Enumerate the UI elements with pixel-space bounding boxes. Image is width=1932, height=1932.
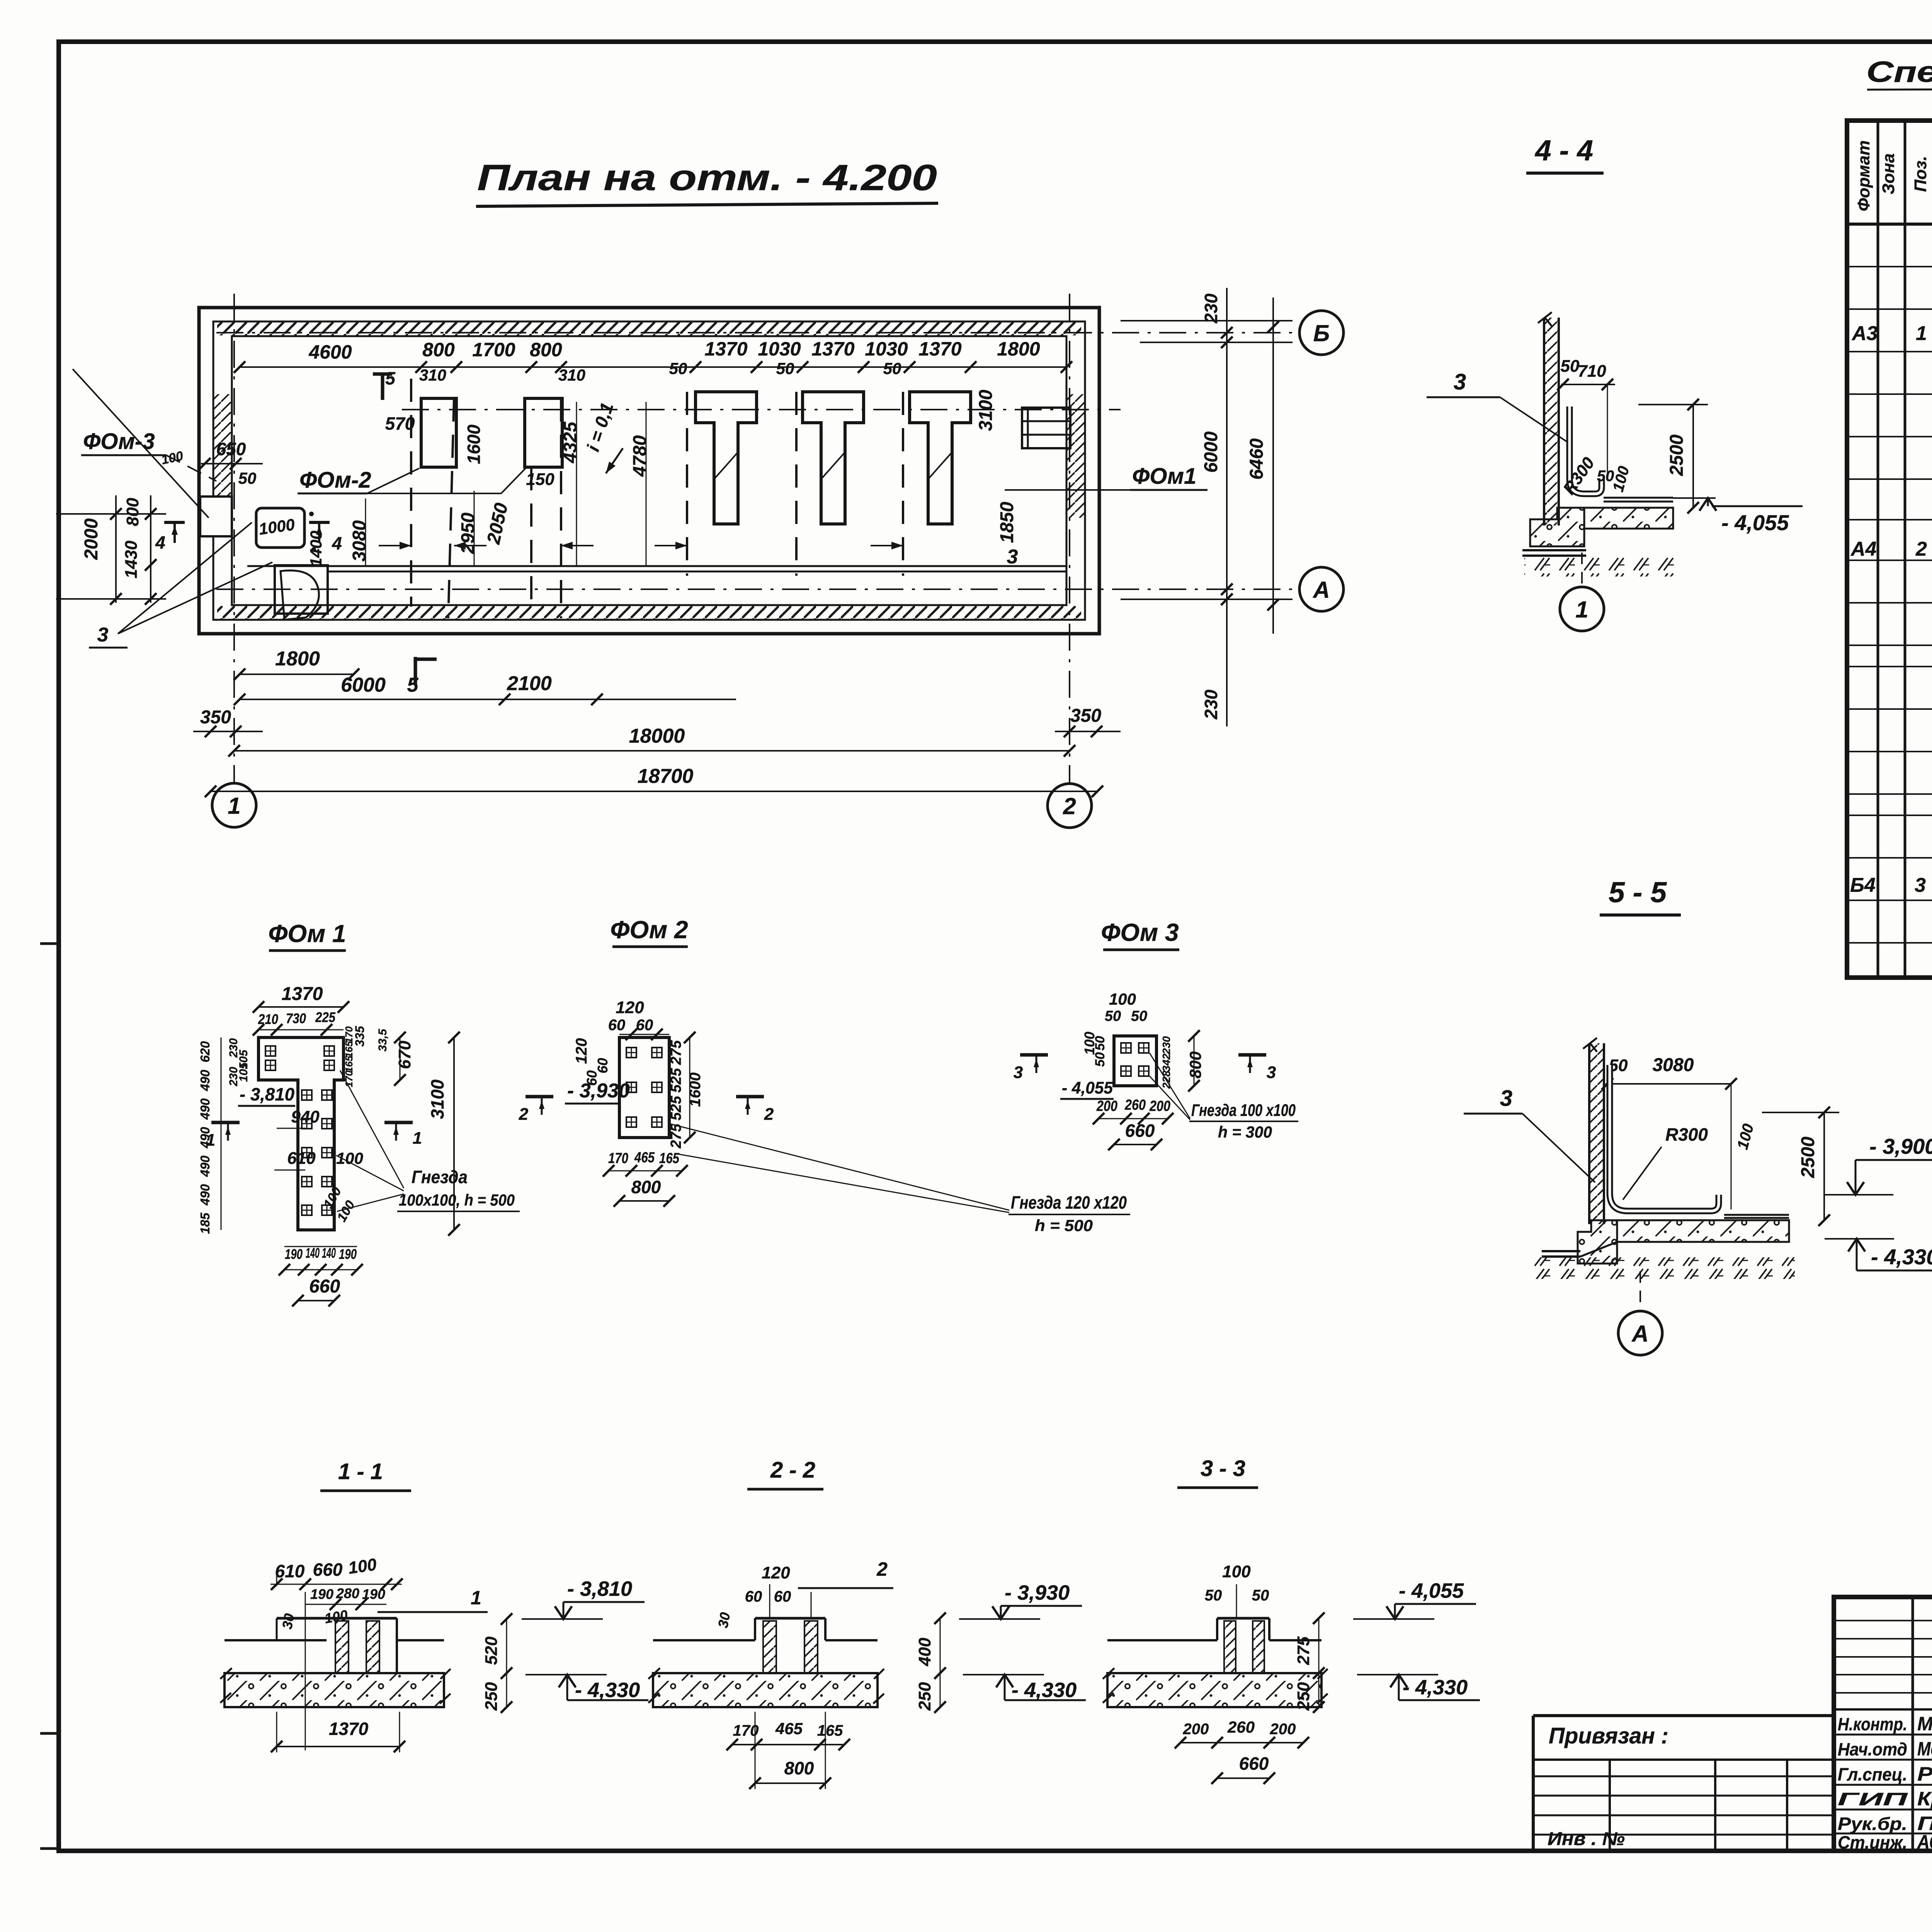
svg-text:3080: 3080 — [1653, 1055, 1694, 1075]
svg-text:1: 1 — [1916, 322, 1927, 345]
svg-text:3: 3 — [1014, 1063, 1023, 1082]
svg-text:50: 50 — [883, 359, 901, 378]
svg-text:- 4,330: - 4,330 — [575, 1679, 640, 1702]
svg-text:800: 800 — [422, 339, 455, 361]
svg-text:- 3,900: - 3,900 — [1869, 1134, 1932, 1158]
svg-text:50: 50 — [1252, 1587, 1269, 1604]
svg-text:260: 260 — [1124, 1097, 1146, 1113]
svg-text:350: 350 — [1070, 706, 1101, 726]
svg-text:465: 465 — [775, 1719, 803, 1738]
svg-text:1700: 1700 — [472, 339, 515, 361]
svg-text:120: 120 — [573, 1038, 590, 1064]
svg-text:ФОм-3: ФОм-3 — [83, 429, 155, 454]
svg-text:30: 30 — [279, 1612, 297, 1631]
svg-text:185: 185 — [198, 1213, 212, 1234]
svg-text:3100: 3100 — [427, 1079, 447, 1119]
svg-text:- 3,930: - 3,930 — [567, 1080, 630, 1102]
svg-text:4: 4 — [332, 533, 342, 553]
svg-text:60: 60 — [636, 1017, 653, 1034]
svg-text:Н.контр.: Н.контр. — [1838, 1714, 1907, 1734]
svg-text:210: 210 — [258, 1011, 278, 1027]
svg-text:18000: 18000 — [629, 725, 685, 747]
svg-text:А3: А3 — [1851, 322, 1878, 345]
svg-text:230: 230 — [1201, 293, 1221, 323]
svg-text:3: 3 — [1267, 1063, 1276, 1082]
svg-text:940: 940 — [291, 1107, 320, 1126]
svg-text:1: 1 — [471, 1587, 481, 1609]
svg-text:Гнезда 100 х100: Гнезда 100 х100 — [1191, 1101, 1296, 1120]
svg-text:250: 250 — [482, 1682, 501, 1711]
svg-text:170: 170 — [343, 1026, 355, 1043]
svg-text:660: 660 — [1239, 1753, 1269, 1774]
svg-text:170: 170 — [608, 1150, 628, 1167]
svg-text:4325: 4325 — [560, 421, 581, 463]
svg-text:ФОм 2: ФОм 2 — [610, 916, 688, 944]
svg-text:h = 500: h = 500 — [1035, 1216, 1093, 1235]
svg-text:1400: 1400 — [307, 531, 325, 566]
svg-text:Крюков: Крюков — [1917, 1788, 1932, 1810]
svg-text:650: 650 — [216, 439, 246, 459]
svg-text:165: 165 — [659, 1150, 680, 1167]
svg-text:6000: 6000 — [341, 674, 386, 696]
svg-text:3: 3 — [97, 624, 109, 646]
svg-text:100: 100 — [336, 1149, 363, 1167]
svg-text:50: 50 — [669, 359, 687, 378]
svg-text:140: 140 — [306, 1245, 320, 1261]
svg-text:230: 230 — [1201, 689, 1221, 719]
svg-text:1370: 1370 — [329, 1719, 369, 1739]
svg-text:Мильцер: Мильцер — [1917, 1713, 1932, 1735]
svg-text:Б: Б — [1313, 320, 1330, 346]
svg-text:ФОм-2: ФОм-2 — [299, 468, 371, 493]
svg-text:1 - 1: 1 - 1 — [338, 1459, 383, 1484]
svg-text:Зона: Зона — [1879, 153, 1898, 194]
svg-text:3 - 3: 3 - 3 — [1201, 1456, 1245, 1481]
svg-text:Б4: Б4 — [1850, 874, 1876, 896]
svg-text:2: 2 — [1063, 793, 1076, 819]
svg-text:2: 2 — [764, 1105, 774, 1124]
svg-text:1370: 1370 — [282, 984, 323, 1004]
svg-text:Привязан :: Привязан : — [1549, 1723, 1668, 1748]
svg-text:730: 730 — [286, 1010, 306, 1026]
svg-text:2: 2 — [1915, 538, 1927, 560]
svg-text:800: 800 — [123, 498, 142, 526]
svg-text:Абдулина: Абдулина — [1917, 1831, 1932, 1853]
svg-text:200: 200 — [1149, 1098, 1170, 1114]
svg-text:50: 50 — [1093, 1052, 1107, 1067]
svg-text:- 3,810: - 3,810 — [240, 1084, 294, 1104]
svg-text:Ст.инж.: Ст.инж. — [1838, 1832, 1907, 1852]
svg-text:Рук.бр.: Рук.бр. — [1838, 1814, 1907, 1834]
svg-text:120: 120 — [616, 998, 644, 1017]
svg-text:3: 3 — [1454, 369, 1466, 395]
svg-text:- 3,810: - 3,810 — [567, 1577, 632, 1600]
svg-text:18700: 18700 — [638, 765, 694, 787]
svg-text:200: 200 — [1096, 1098, 1117, 1114]
svg-text:310: 310 — [419, 366, 446, 384]
svg-text:150: 150 — [526, 470, 554, 489]
svg-text:800: 800 — [1186, 1051, 1204, 1078]
svg-text:- 4,330: - 4,330 — [1012, 1679, 1077, 1702]
svg-text:342: 342 — [1160, 1053, 1172, 1071]
svg-text:1370: 1370 — [811, 338, 854, 360]
svg-text:- 4,055: - 4,055 — [1721, 510, 1789, 535]
svg-text:3: 3 — [1500, 1086, 1512, 1111]
svg-text:800: 800 — [631, 1177, 661, 1197]
svg-text:190: 190 — [310, 1586, 333, 1602]
svg-text:165: 165 — [343, 1041, 355, 1058]
svg-text:50: 50 — [1093, 1036, 1107, 1051]
svg-text:4780: 4780 — [630, 435, 650, 477]
svg-text:525: 525 — [668, 1095, 684, 1120]
svg-text:335: 335 — [353, 1026, 367, 1047]
svg-text:2100: 2100 — [507, 672, 552, 695]
svg-text:Инв . №: Инв . № — [1548, 1829, 1625, 1849]
svg-text:200: 200 — [1183, 1721, 1209, 1738]
svg-text:R300: R300 — [1665, 1124, 1708, 1145]
svg-text:План на отм. - 4.200: План на отм. - 4.200 — [477, 157, 937, 198]
svg-text:100: 100 — [1222, 1562, 1251, 1581]
svg-text:660: 660 — [309, 1276, 340, 1297]
svg-text:4 - 4: 4 - 4 — [1534, 134, 1593, 167]
svg-text:50: 50 — [1105, 1008, 1121, 1024]
svg-text:310: 310 — [558, 366, 585, 384]
svg-text:Гнезда: Гнезда — [412, 1167, 468, 1187]
svg-text:ФОм 1: ФОм 1 — [268, 920, 346, 947]
svg-text:3: 3 — [1915, 874, 1926, 896]
svg-text:230: 230 — [227, 1067, 240, 1087]
svg-text:ФОм 3: ФОм 3 — [1101, 918, 1179, 946]
svg-text:400: 400 — [915, 1638, 934, 1667]
svg-text:Нач.отд: Нач.отд — [1838, 1739, 1907, 1759]
svg-text:120: 120 — [762, 1563, 790, 1582]
svg-text:1370: 1370 — [704, 338, 747, 360]
svg-text:2500: 2500 — [1798, 1136, 1818, 1178]
svg-text:200: 200 — [1270, 1721, 1296, 1738]
svg-text:Формат: Формат — [1854, 140, 1873, 211]
svg-text:660: 660 — [313, 1560, 343, 1580]
svg-text:33,5: 33,5 — [376, 1028, 389, 1051]
svg-text:250: 250 — [915, 1682, 934, 1711]
svg-text:Поз.: Поз. — [1911, 156, 1930, 192]
svg-text:1: 1 — [206, 1131, 215, 1150]
svg-text:Спецификация к схемам р: Спецификация к схемам расположения — [1866, 56, 1932, 88]
svg-text:490: 490 — [198, 1155, 212, 1177]
svg-text:- 4,330: - 4,330 — [1871, 1245, 1932, 1269]
svg-text:350: 350 — [200, 707, 231, 728]
svg-text:3080: 3080 — [349, 520, 370, 561]
svg-text:190: 190 — [339, 1246, 357, 1262]
svg-text:Мешалкин: Мешалкин — [1917, 1738, 1932, 1760]
svg-text:165: 165 — [817, 1722, 843, 1739]
svg-text:h = 300: h = 300 — [1218, 1123, 1272, 1141]
svg-text:60: 60 — [745, 1588, 762, 1605]
svg-text:1030: 1030 — [865, 338, 908, 360]
svg-text:ГИП: ГИП — [1838, 1789, 1908, 1809]
svg-text:50: 50 — [1561, 357, 1580, 376]
svg-text:1430: 1430 — [122, 541, 141, 578]
svg-text:465: 465 — [634, 1150, 655, 1166]
svg-text:1800: 1800 — [275, 648, 320, 670]
svg-text:1: 1 — [1575, 597, 1588, 622]
svg-text:490: 490 — [198, 1070, 212, 1092]
svg-text:50: 50 — [776, 359, 794, 378]
svg-text:4: 4 — [155, 532, 165, 553]
svg-text:100х100, h = 500: 100х100, h = 500 — [399, 1191, 515, 1209]
svg-text:А: А — [1312, 577, 1330, 603]
svg-text:5 - 5: 5 - 5 — [1609, 876, 1667, 908]
svg-text:2950: 2950 — [458, 512, 478, 554]
svg-text:610: 610 — [287, 1149, 316, 1168]
svg-text:- 4,055: - 4,055 — [1062, 1078, 1113, 1097]
svg-text:670: 670 — [395, 1041, 414, 1069]
svg-text:490: 490 — [198, 1184, 212, 1206]
svg-text:Руссин: Руссин — [1917, 1763, 1932, 1785]
svg-text:1030: 1030 — [758, 338, 801, 360]
svg-text:А: А — [1631, 1321, 1648, 1347]
svg-text:1600: 1600 — [464, 424, 484, 464]
svg-text:- 4,055: - 4,055 — [1399, 1579, 1464, 1602]
svg-text:710: 710 — [1578, 362, 1606, 381]
svg-text:5: 5 — [385, 368, 396, 388]
svg-text:2: 2 — [519, 1105, 529, 1124]
svg-text:4600: 4600 — [308, 341, 352, 363]
svg-text:800: 800 — [784, 1758, 814, 1778]
svg-text:- 3,930: - 3,930 — [1005, 1581, 1070, 1604]
svg-text:225: 225 — [315, 1009, 336, 1025]
svg-text:800: 800 — [530, 339, 562, 361]
svg-text:ФОм1: ФОм1 — [1132, 464, 1196, 489]
svg-text:250: 250 — [1294, 1682, 1313, 1711]
svg-text:60: 60 — [608, 1017, 626, 1034]
svg-text:6000: 6000 — [1201, 431, 1221, 473]
svg-text:3100: 3100 — [976, 389, 996, 431]
svg-text:490: 490 — [198, 1098, 212, 1120]
svg-text:620: 620 — [198, 1041, 212, 1063]
svg-text:660: 660 — [1125, 1121, 1155, 1141]
svg-text:50: 50 — [1205, 1587, 1222, 1604]
svg-text:2: 2 — [876, 1558, 888, 1580]
svg-text:570: 570 — [385, 413, 415, 434]
svg-text:Гл.спец.: Гл.спец. — [1838, 1764, 1907, 1784]
svg-text:60: 60 — [774, 1588, 791, 1605]
svg-text:140: 140 — [322, 1245, 336, 1261]
svg-text:2500: 2500 — [1667, 434, 1687, 476]
svg-text:2 - 2: 2 - 2 — [770, 1458, 815, 1483]
svg-text:50: 50 — [238, 469, 257, 487]
svg-text:260: 260 — [1227, 1718, 1255, 1736]
svg-text:- 4,330: - 4,330 — [1403, 1676, 1468, 1699]
svg-text:190: 190 — [285, 1246, 303, 1262]
svg-text:610: 610 — [275, 1561, 305, 1581]
svg-text:1370: 1370 — [918, 338, 961, 360]
svg-text:Гнезда 120 х120: Гнезда 120 х120 — [1011, 1192, 1127, 1213]
svg-text:275: 275 — [668, 1040, 684, 1065]
svg-text:275: 275 — [1294, 1636, 1313, 1665]
svg-text:230: 230 — [1160, 1036, 1172, 1054]
svg-text:50: 50 — [1131, 1008, 1147, 1024]
svg-text:3: 3 — [1007, 546, 1018, 568]
svg-text:1: 1 — [413, 1129, 422, 1148]
svg-text:1850: 1850 — [997, 502, 1017, 543]
svg-text:525: 525 — [668, 1068, 684, 1092]
svg-text:100: 100 — [1109, 990, 1136, 1008]
svg-text:2000: 2000 — [81, 518, 102, 560]
svg-text:520: 520 — [482, 1636, 501, 1665]
svg-text:165: 165 — [343, 1056, 355, 1073]
svg-text:30: 30 — [715, 1611, 733, 1629]
svg-text:6460: 6460 — [1247, 438, 1267, 480]
svg-text:1: 1 — [228, 793, 240, 819]
svg-text:100: 100 — [347, 1555, 378, 1578]
svg-text:1800: 1800 — [997, 338, 1040, 360]
svg-text:А4: А4 — [1850, 538, 1877, 560]
